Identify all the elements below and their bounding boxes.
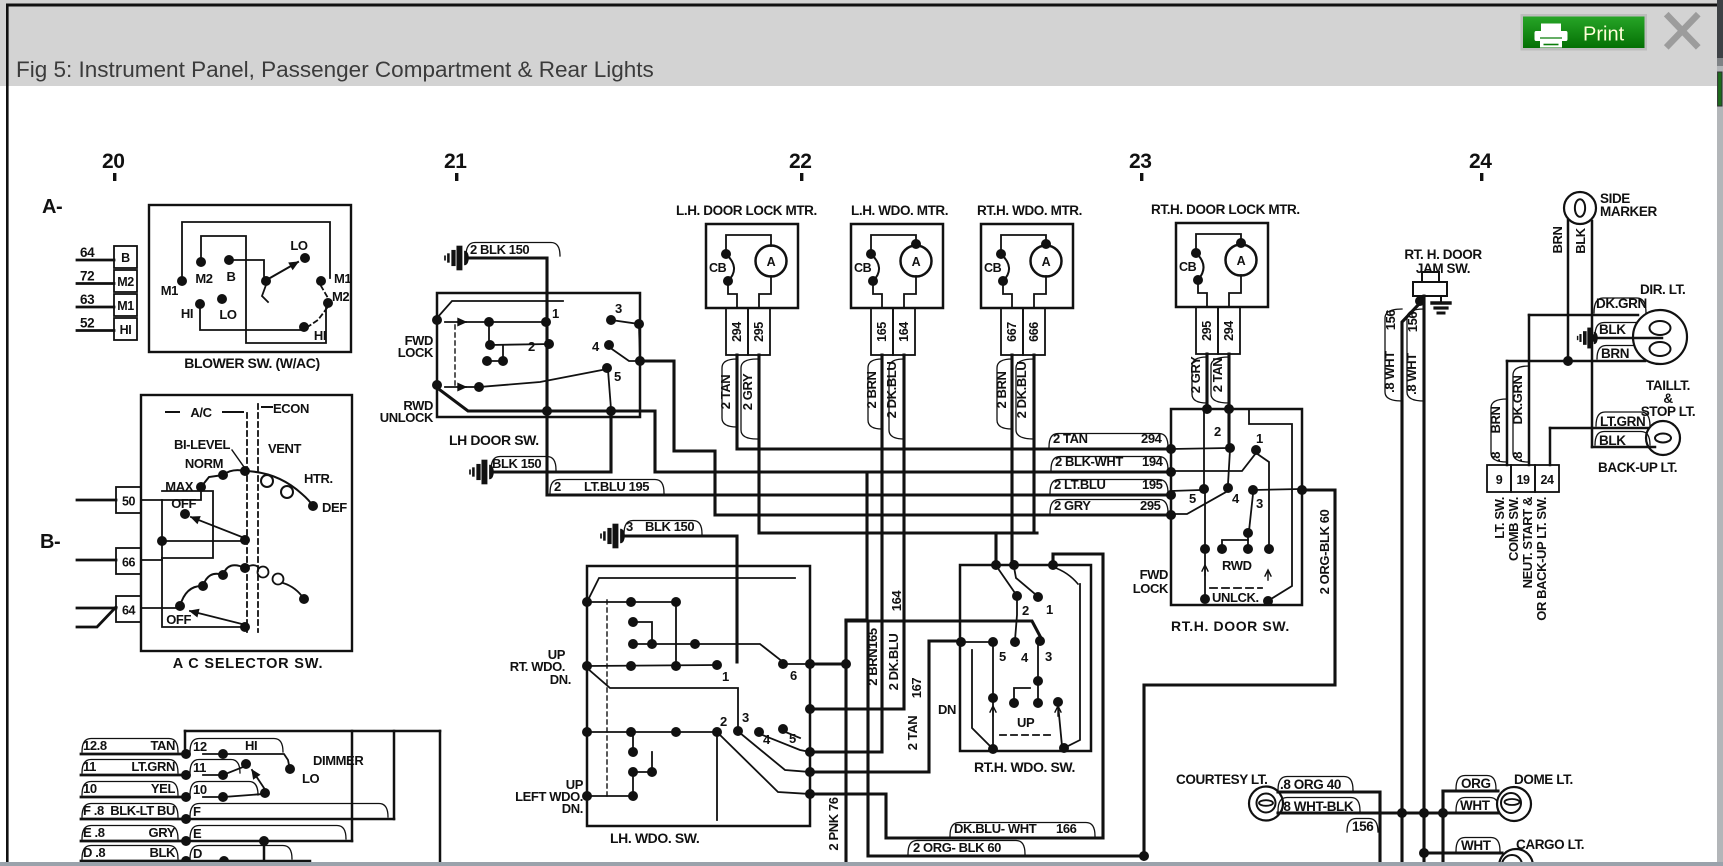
svg-text:2 TAN: 2 TAN xyxy=(718,375,733,410)
A/C selector pins 50 66 64 xyxy=(116,487,141,513)
LH wdo sw contact 5 xyxy=(778,724,788,734)
RH wdo sw inner left xyxy=(972,650,991,747)
dimmer 10 wire xyxy=(223,794,263,797)
svg-text:BLK: BLK xyxy=(1599,322,1626,337)
bubble 2 TAN xyxy=(722,359,737,427)
svg-text:BLK-LT BU: BLK-LT BU xyxy=(110,803,175,818)
dir/tail lamp xyxy=(1633,310,1687,364)
svg-text:.8 ORG 40: .8 ORG 40 xyxy=(1280,777,1341,792)
wire E vertical xyxy=(351,731,354,841)
RH wdo sw dashed xyxy=(1000,734,1052,736)
blower wire B to pivot xyxy=(229,260,264,278)
svg-text:2 DK.BLU: 2 DK.BLU xyxy=(884,362,899,419)
RT.H. WDO. MTR. armature circle xyxy=(1031,246,1062,277)
LH door sw wire 4 to edge xyxy=(609,347,638,361)
wire 2 GRY to RH door sw xyxy=(1205,354,1208,409)
wire .8 WHT 156 right xyxy=(1422,296,1425,866)
LH door sw inner dot d xyxy=(498,356,508,366)
svg-text:BLK: BLK xyxy=(1573,227,1588,254)
blower rotor pivot xyxy=(261,276,271,286)
LH wdo sw dot hook1 xyxy=(628,617,638,627)
LH wdo sw dot r5a xyxy=(628,767,638,777)
svg-text:F: F xyxy=(193,804,201,819)
LH wdo sw contact 6 xyxy=(778,659,788,669)
svg-text:2 PNK 76: 2 PNK 76 xyxy=(826,797,841,850)
RH door sw bottom dot a xyxy=(1200,594,1210,604)
blower switch SW1 outline xyxy=(149,205,351,352)
svg-text:A C SELECTOR SW.: A C SELECTOR SW. xyxy=(173,656,324,672)
RH wdo sw inner right xyxy=(1066,584,1080,747)
RH wdo sw 5 drop xyxy=(992,644,994,747)
LH door sw wire to 2 xyxy=(490,344,549,345)
LH wdo sw hook1 wire xyxy=(633,622,652,644)
RH wdo sw 3 drop xyxy=(1037,643,1039,679)
wire 64 to OFF contact xyxy=(141,607,180,609)
svg-text:2 BLK-WHT: 2 BLK-WHT xyxy=(1055,454,1123,469)
svg-text:2: 2 xyxy=(528,339,535,354)
LH wdo sw wire to 6 xyxy=(695,644,783,662)
LH door sw contact 5 xyxy=(602,363,612,373)
svg-text:HI: HI xyxy=(181,306,193,321)
RT.H. WDO. MTR. terminal boxes 667 666 xyxy=(1001,308,1023,355)
wire 2 TAN 294 xyxy=(737,355,1171,449)
bubble DK.GRN xyxy=(1594,298,1646,313)
svg-text:195: 195 xyxy=(1142,477,1163,492)
svg-text:294: 294 xyxy=(1141,431,1163,446)
svg-text:1: 1 xyxy=(722,669,729,684)
RH wdo sw diag b xyxy=(1014,567,1035,594)
selector contact NORM xyxy=(218,470,228,480)
RH door sw wire to 2 xyxy=(1171,448,1228,449)
svg-text:MARKER: MARKER xyxy=(1600,204,1657,219)
LH wdo sw contact 2 xyxy=(712,727,722,737)
svg-text:4: 4 xyxy=(1021,650,1029,665)
jam sw dot xyxy=(1415,296,1425,306)
svg-text:A: A xyxy=(1237,254,1246,268)
RH door sw 1 drop xyxy=(1256,453,1269,546)
RH door sw GRY drop to 5 xyxy=(1203,411,1205,486)
LH wdo sw wire 4 to edge3 xyxy=(760,734,810,752)
svg-text:10: 10 xyxy=(193,782,207,797)
svg-text:1: 1 xyxy=(552,306,559,321)
selector contact BI-LEVEL xyxy=(240,466,250,476)
LH wdo sw contact 1 xyxy=(712,660,722,670)
svg-text:D: D xyxy=(193,846,202,861)
junction ORG-BLK xyxy=(1139,851,1149,861)
wire BLK to lamp xyxy=(1592,337,1662,340)
L.H. DOOR LOCK MTR. armature lower wire xyxy=(759,276,771,308)
svg-text:2 BRN: 2 BRN xyxy=(994,371,1009,408)
L.H. WDO. MTR. armature lower wire xyxy=(904,276,916,308)
bubble BRN drop xyxy=(1491,399,1507,462)
LH wdo sw wire 3 to edge4 xyxy=(740,733,810,772)
bubble 2 BRN right xyxy=(997,359,1012,429)
svg-text:.8 WHT: .8 WHT xyxy=(1382,351,1397,393)
selector pivot upper xyxy=(240,535,250,545)
svg-text:A: A xyxy=(1042,255,1051,269)
RT.H. DOOR LOCK MTR. CB dot top xyxy=(1191,248,1201,258)
LH door sw contact 3 xyxy=(606,315,616,325)
motor RT.H. WDO. MTR. outline xyxy=(981,224,1073,308)
LH wdo sw r1b drop xyxy=(675,602,677,666)
bubble WHT cargo xyxy=(1456,838,1500,852)
svg-text:CB: CB xyxy=(1179,260,1197,274)
side marker lamp xyxy=(1564,192,1596,224)
RH door sw 5 drop xyxy=(1204,492,1206,597)
bubble ORG 40 xyxy=(1278,777,1353,791)
wire 2 TAN 167 xyxy=(810,641,960,772)
selector pivot lower xyxy=(240,622,250,632)
LH wdo sw wire to 3 xyxy=(587,668,738,729)
svg-text:666: 666 xyxy=(1027,322,1041,342)
RH door sw top dot TAN xyxy=(1224,404,1234,414)
selector inner box xyxy=(162,491,213,558)
svg-text:164: 164 xyxy=(897,322,911,342)
svg-text:2 BLK 150: 2 BLK 150 xyxy=(470,242,529,257)
LH wdo sw pole 3 xyxy=(582,727,592,737)
wire D row xyxy=(186,860,310,863)
blower contact HI right xyxy=(299,322,309,332)
selector contact lower 3 xyxy=(218,570,228,580)
LH wdo sw dot r3a xyxy=(626,661,636,671)
svg-text:DEF: DEF xyxy=(322,500,347,515)
back-up lamp xyxy=(1646,421,1680,455)
svg-text:WHT: WHT xyxy=(1461,838,1492,853)
svg-text:165: 165 xyxy=(875,322,889,342)
wire 50 into box xyxy=(141,491,201,500)
LH wdo sw wire 2 to edge5 xyxy=(719,734,810,794)
LH door sw inner dot c xyxy=(482,356,492,366)
svg-text:2: 2 xyxy=(1022,603,1029,618)
junction cargo xyxy=(1419,848,1429,858)
RH door sw RWD hook xyxy=(1222,540,1248,549)
bubble 294 xyxy=(1049,434,1168,448)
selector arm upper xyxy=(191,517,242,537)
bubble BRN dir xyxy=(1597,346,1650,360)
svg-text:RT.H. WDO. SW.: RT.H. WDO. SW. xyxy=(974,759,1075,775)
junction 156 left xyxy=(1397,808,1407,818)
LH door sw wire 3 to edge xyxy=(611,320,639,324)
LH wdo sw dot r6a xyxy=(628,791,638,801)
left border line xyxy=(6,4,9,863)
svg-text:DN.: DN. xyxy=(562,801,583,816)
LH wdo sw dot r5b xyxy=(647,767,657,777)
svg-text:RT. H. DOOR: RT. H. DOOR xyxy=(1404,247,1482,262)
svg-text:21: 21 xyxy=(444,150,467,173)
LH door sw link a-b xyxy=(488,322,490,345)
svg-text:RWD: RWD xyxy=(1222,558,1252,573)
svg-text:66: 66 xyxy=(122,556,136,570)
LH door sw dashed divider xyxy=(454,325,456,385)
svg-text:TAN: TAN xyxy=(150,738,175,753)
svg-text:RT.H. WDO. MTR.: RT.H. WDO. MTR. xyxy=(977,203,1082,218)
selector open contact HTR xyxy=(281,486,293,498)
RH door sw arrow ticks xyxy=(1202,565,1208,575)
RT.H. WDO. MTR. CB dot top xyxy=(996,249,1006,259)
wire .8 BRN drop xyxy=(1506,361,1509,465)
LH wdo sw pole 1 xyxy=(582,597,592,607)
selector junction left xyxy=(157,536,167,546)
LH door sw inner top wire xyxy=(437,301,563,318)
RH door sw RWD dot d xyxy=(1264,544,1274,554)
RH wdo sw dot low a xyxy=(1009,698,1019,708)
svg-text:11: 11 xyxy=(193,760,206,775)
wire ORG to dome xyxy=(1443,789,1498,792)
LH wdo sw edge dot 4 xyxy=(805,767,815,777)
wire drop to RH wdo sw pole xyxy=(994,533,997,565)
dimmer box right edge xyxy=(439,731,442,862)
svg-text:VENT: VENT xyxy=(268,441,302,456)
blower rotor arm xyxy=(270,262,298,278)
RH window switch SW5 outline xyxy=(960,565,1091,751)
svg-text:2 ORG- BLK 60: 2 ORG- BLK 60 xyxy=(913,840,1001,855)
LH wdo sw dashed divider xyxy=(606,600,608,800)
bubble 2 GRY xyxy=(741,359,757,439)
dimmer box top line xyxy=(185,730,440,733)
selector arc seg1 xyxy=(201,475,223,487)
svg-text:2 ORG-BLK 60: 2 ORG-BLK 60 xyxy=(1317,509,1332,594)
wire BRN side marker xyxy=(1567,220,1570,361)
wire LT.GRN to backup lamp xyxy=(1550,427,1648,430)
RH door sw right junction xyxy=(1297,485,1307,495)
wire 2 BLK-WHT 194 xyxy=(440,390,1171,472)
RH wdo sw dot low d xyxy=(988,693,998,703)
svg-text:.8 WHT: .8 WHT xyxy=(1404,353,1419,395)
wire BLK 150 into LH wdo sw xyxy=(622,536,737,662)
LH wdo sw edge dot 3 xyxy=(805,747,815,757)
bubble LT.GRN xyxy=(1596,412,1650,426)
svg-text:UP: UP xyxy=(1017,715,1035,730)
L.H. WDO. MTR. CB arc xyxy=(871,254,879,281)
svg-text:DK.GRN: DK.GRN xyxy=(1510,376,1525,425)
RT.H. DOOR LOCK MTR. armature top dot xyxy=(1236,238,1246,248)
LH door sw edge link xyxy=(639,326,640,359)
door jam switch symbol xyxy=(1413,282,1447,296)
junction E row xyxy=(259,836,269,846)
selector arm lower xyxy=(190,611,242,624)
LH wdo sw edge dot 1 xyxy=(805,659,815,669)
wire 2 LT.BLU 195 xyxy=(547,411,1171,495)
wire 11 to contact xyxy=(203,774,223,776)
LH door sw wire to 5 xyxy=(479,369,607,387)
L.H. WDO. MTR. armature top dot xyxy=(911,239,921,249)
wire 2 ORG-BLK 60 lower xyxy=(868,621,1144,856)
bubble 2 GRY m4 xyxy=(1192,357,1207,403)
blower pin wires 64 72 63 52 xyxy=(77,259,114,262)
LH door sw contact 2 xyxy=(544,339,554,349)
wire 2 GRY 295 staircase xyxy=(640,361,1171,515)
RH wdo sw contact 3 xyxy=(1035,636,1045,646)
wire 194 drop / 2 PNK 76 xyxy=(846,472,867,866)
svg-text:BLK 150: BLK 150 xyxy=(492,456,541,471)
svg-text:5: 5 xyxy=(999,649,1006,664)
wire ORG drop xyxy=(1441,791,1444,866)
wire 66 into box xyxy=(141,559,162,561)
ground G4 xyxy=(1578,330,1598,346)
RH wdo sw dot mid xyxy=(1033,676,1043,686)
svg-text:DN.: DN. xyxy=(550,672,571,687)
wire 2 BRN to RH wdo sw xyxy=(1010,355,1013,565)
svg-text:OR BACK-UP LT. SW.: OR BACK-UP LT. SW. xyxy=(1534,497,1549,621)
LH door sw contact 1 xyxy=(541,317,551,327)
svg-text:HTR.: HTR. xyxy=(304,471,333,486)
svg-text:5: 5 xyxy=(614,369,621,384)
selector arc upper xyxy=(223,470,313,506)
svg-text:2 TAN: 2 TAN xyxy=(905,716,920,751)
svg-text:B-: B- xyxy=(40,531,60,553)
RH door sw 3 to junction xyxy=(1253,489,1300,490)
svg-text:LT. SW.: LT. SW. xyxy=(1492,497,1507,539)
junction BRN xyxy=(1563,356,1573,366)
LH door switch SW3 outline xyxy=(437,293,640,417)
wire 10 to contact xyxy=(203,796,223,798)
svg-text:Fig 5: Instrument Panel, Passe: Fig 5: Instrument Panel, Passenger Compa… xyxy=(16,57,654,82)
RH door sw contact 3 xyxy=(1248,485,1258,495)
svg-text:DN: DN xyxy=(938,702,956,717)
bubble ORG dome xyxy=(1456,776,1496,790)
terminal boxes 9 19 24 xyxy=(1487,465,1511,492)
svg-text:ECON: ECON xyxy=(273,401,309,416)
RT.H. WDO. MTR. CB lower wire xyxy=(1003,285,1012,308)
svg-text:4: 4 xyxy=(763,732,771,747)
svg-text:A/C: A/C xyxy=(190,405,212,420)
svg-text:294: 294 xyxy=(730,322,744,342)
wire to RH wdo sw contact 3 xyxy=(846,621,1041,638)
bubble BLK dir xyxy=(1595,323,1656,337)
wire 2 GRY to RH wdo sw xyxy=(759,355,1037,533)
RT.H. WDO. MTR. armature top dot xyxy=(1041,239,1051,249)
RT.H. DOOR LOCK MTR. CB dot bottom xyxy=(1193,275,1203,285)
junction ORG drop xyxy=(1438,808,1448,818)
RH wdo sw top dot a xyxy=(991,560,1001,570)
svg-text:12: 12 xyxy=(193,739,207,754)
LH wdo sw hook2a xyxy=(632,732,634,752)
svg-text:LT.BLU 195: LT.BLU 195 xyxy=(584,479,649,494)
LH door sw link c-d xyxy=(487,346,503,361)
LH wdo sw hook2c xyxy=(632,772,634,796)
BI-LEVEL pointer xyxy=(232,450,244,467)
cargo lamp xyxy=(1499,849,1533,866)
L.H. WDO. MTR. armature circle xyxy=(901,246,932,277)
svg-text:B: B xyxy=(227,269,236,284)
RH wdo sw top dot c xyxy=(1048,560,1058,570)
LH wdo sw dot r1a xyxy=(626,597,636,607)
bubble 2 DK.BLU right xyxy=(1016,359,1034,439)
svg-text:4: 4 xyxy=(1232,491,1240,506)
dimmer contact low beam xyxy=(260,788,270,798)
RT.H. DOOR LOCK MTR. armature circle xyxy=(1226,245,1257,276)
svg-text:BLK 150: BLK 150 xyxy=(645,519,694,534)
LH door sw contact 4 xyxy=(604,340,614,350)
svg-text:Print: Print xyxy=(1583,24,1625,46)
L.H. DOOR LOCK MTR. top wire xyxy=(726,235,771,250)
wire .8 DK.GRN drop xyxy=(1528,315,1531,465)
bottom scroll bar xyxy=(0,862,1723,866)
svg-text:2: 2 xyxy=(1214,424,1221,439)
wire .8 WHT 156 left xyxy=(1402,303,1420,866)
LH door sw inner dot b xyxy=(485,340,495,350)
svg-text:72: 72 xyxy=(80,269,94,284)
blower contact B xyxy=(224,255,234,265)
svg-text:BLK: BLK xyxy=(149,845,176,860)
wire F vertical xyxy=(393,731,396,819)
RH wdo sw diag c xyxy=(1053,567,1078,584)
LH door sw edge dot lower xyxy=(635,356,645,366)
blower contact HI xyxy=(195,299,205,309)
LH wdo sw dot r4b xyxy=(671,727,681,737)
RH door sw right inner path xyxy=(1249,410,1292,599)
svg-text:64: 64 xyxy=(122,604,136,618)
RH wdo sw dot low c xyxy=(1053,697,1063,707)
wire contact6 to PNK xyxy=(810,662,846,665)
svg-text:LO: LO xyxy=(302,771,320,786)
scrollbar minimap print marker xyxy=(1718,72,1722,106)
RT.H. DOOR LOCK MTR. armature lower wire xyxy=(1229,275,1241,307)
LH wdo sw row1 wire xyxy=(587,601,676,603)
svg-text:4: 4 xyxy=(592,339,600,354)
RT.H. DOOR LOCK MTR. top wire xyxy=(1196,234,1241,249)
svg-text:6: 6 xyxy=(790,668,797,683)
LH wdo sw hook2b xyxy=(633,752,652,772)
bubble DK.GRN drop xyxy=(1513,366,1529,462)
wire junction to pivot xyxy=(162,540,242,542)
wire 24 drop xyxy=(1549,428,1552,465)
svg-text:M1: M1 xyxy=(117,299,134,313)
svg-text:E: E xyxy=(193,826,202,841)
svg-text:GRY: GRY xyxy=(149,825,176,840)
motor L.H. DOOR LOCK MTR. outline xyxy=(706,224,798,308)
blower wire M1 to M1 xyxy=(182,222,330,278)
svg-text:DIMMER: DIMMER xyxy=(313,753,364,768)
RH door sw contact 5 xyxy=(1199,484,1209,494)
LH wdo sw dot r3b xyxy=(671,661,681,671)
blower contact M1 right xyxy=(316,276,326,286)
dimmer HI wire xyxy=(223,754,289,765)
LH wdo sw dot r2c xyxy=(690,639,700,649)
dimmer contact LO xyxy=(285,764,295,774)
svg-text:50: 50 xyxy=(122,495,136,509)
svg-text:ORG: ORG xyxy=(1461,776,1491,791)
svg-text:OFF: OFF xyxy=(171,496,196,511)
L.H. DOOR LOCK MTR. CB dot bottom xyxy=(723,276,733,286)
svg-text:2: 2 xyxy=(720,714,727,729)
wire DK.BLU-WHT 166 xyxy=(810,554,1103,838)
LH wdo sw dot r2a xyxy=(628,639,638,649)
selector lower coil arc xyxy=(180,565,245,606)
wire 2 BRN 165 xyxy=(812,355,882,752)
svg-text:166: 166 xyxy=(1056,821,1077,836)
selector contact MAX xyxy=(196,482,206,492)
bubble 2 TAN m4 xyxy=(1211,357,1229,403)
RH door sw top dot GRY xyxy=(1202,404,1212,414)
svg-text:295: 295 xyxy=(752,322,766,342)
LH wdo sw row2 wire xyxy=(633,643,695,645)
wire to pin 66 xyxy=(77,559,116,562)
svg-text:NORM: NORM xyxy=(185,456,223,471)
LH wdo sw dot hook2 xyxy=(628,747,638,757)
right scrollbar track xyxy=(1717,0,1723,866)
svg-text:FWD: FWD xyxy=(1140,567,1168,582)
RH wdo sw top dot b xyxy=(1009,560,1019,570)
RH wdo sw contact 2 xyxy=(1012,591,1022,601)
svg-text:295: 295 xyxy=(1140,498,1161,513)
svg-text:LO: LO xyxy=(219,307,237,322)
A/C dashed divider xyxy=(246,413,248,632)
L.H. WDO. MTR. top wire xyxy=(871,235,916,250)
blower dashed arc M1-M2 xyxy=(321,286,328,298)
wire 2 BLK 150 xyxy=(466,258,547,411)
wire E row xyxy=(186,840,352,843)
